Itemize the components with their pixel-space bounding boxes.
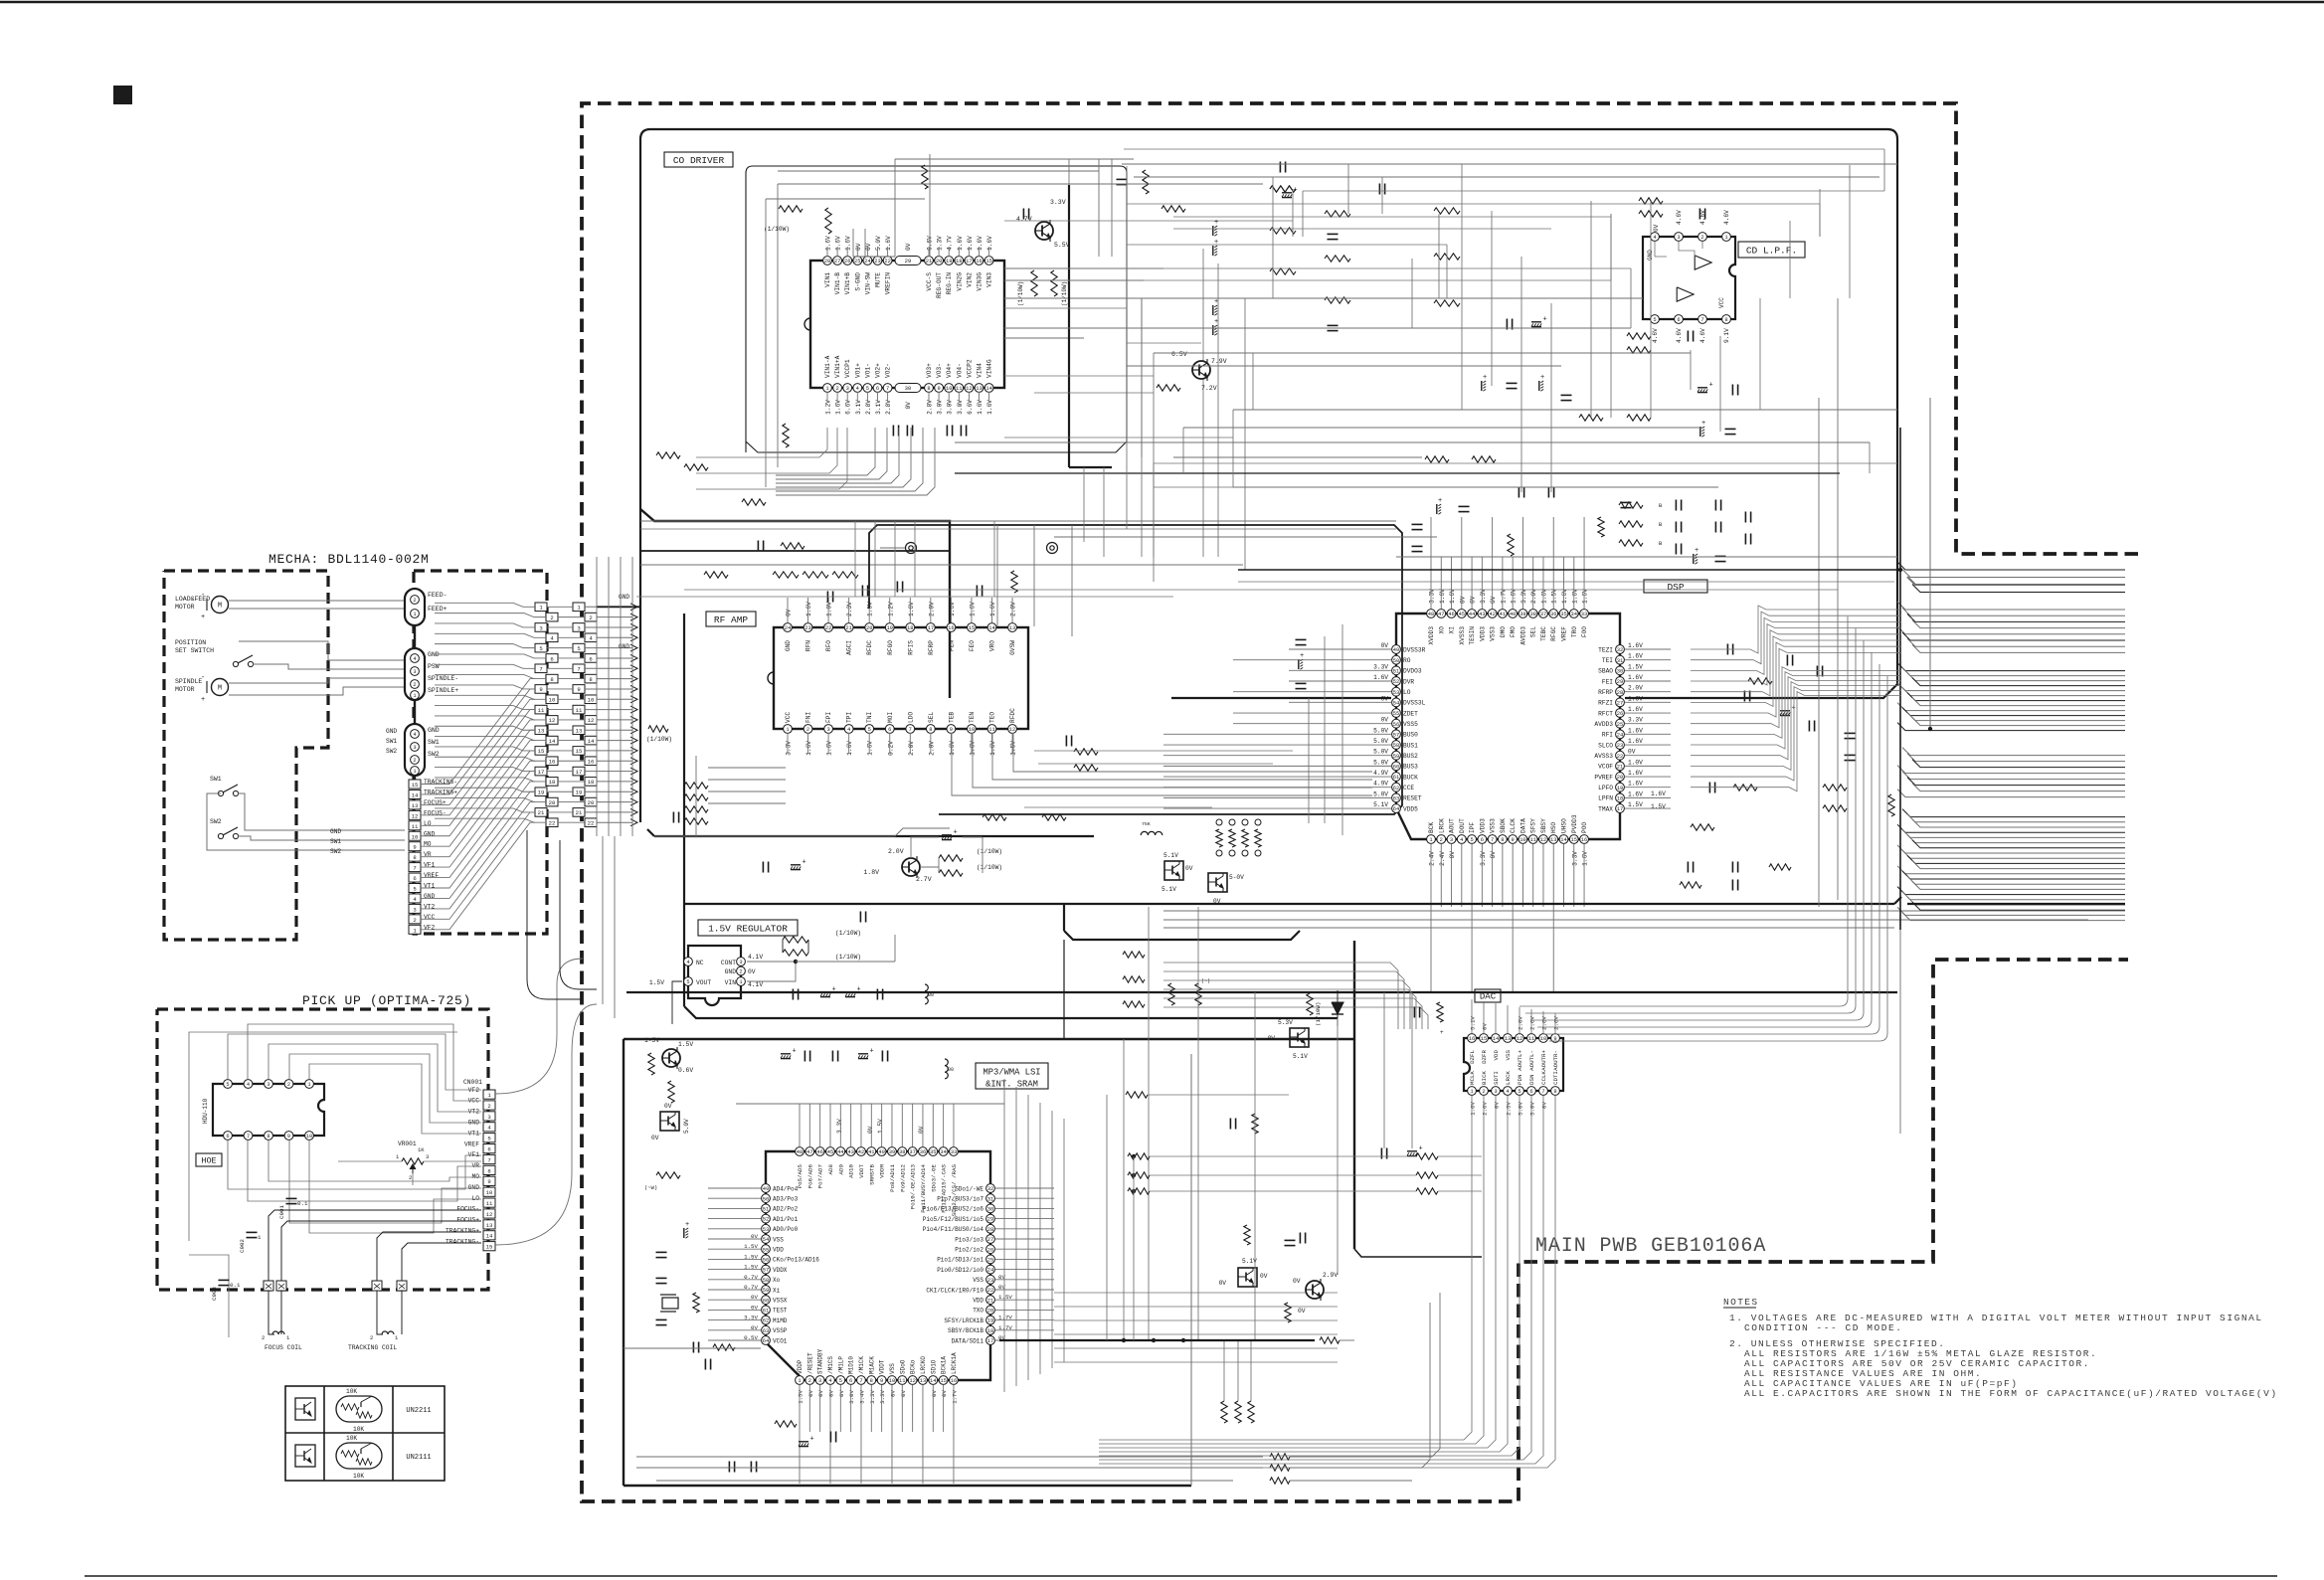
svg-text:1.6V: 1.6V bbox=[1439, 589, 1446, 604]
svg-text:21: 21 bbox=[538, 809, 545, 816]
svg-text:7: 7 bbox=[909, 727, 912, 733]
svg-text:35: 35 bbox=[930, 1149, 936, 1155]
capacitor bbox=[1845, 754, 1856, 756]
svg-text:RFGC: RFGC bbox=[1550, 626, 1557, 641]
resistor bbox=[1691, 824, 1714, 830]
UN table bbox=[285, 1386, 445, 1481]
svg-text:21: 21 bbox=[1617, 764, 1623, 770]
svg-text:2.0V: 2.0V bbox=[928, 741, 935, 756]
resistor bbox=[1627, 333, 1651, 339]
svg-text:64: 64 bbox=[763, 1338, 769, 1344]
capacitor bbox=[762, 862, 764, 873]
svg-text:10: 10 bbox=[588, 697, 595, 704]
svg-text:4: 4 bbox=[686, 960, 689, 966]
svg-text:AD4/Po4: AD4/Po4 bbox=[773, 1185, 799, 1192]
svg-text:LPFO: LPFO bbox=[1598, 785, 1613, 791]
svg-text:5: 5 bbox=[487, 1136, 490, 1142]
svg-text:47: 47 bbox=[806, 1149, 812, 1155]
svg-text:42: 42 bbox=[858, 1149, 864, 1155]
1.5V REGULATOR label bbox=[698, 920, 798, 936]
svg-text:MP3/WMA LSI: MP3/WMA LSI bbox=[983, 1068, 1040, 1078]
svg-text:5: 5 bbox=[868, 727, 871, 733]
svg-text:1K: 1K bbox=[418, 1146, 425, 1153]
resistor bbox=[356, 1459, 372, 1465]
svg-text:24: 24 bbox=[987, 1268, 993, 1274]
svg-text:1: 1 bbox=[258, 1234, 262, 1241]
transistor cell UN2211 bbox=[295, 1398, 315, 1420]
svg-text:3.3V: 3.3V bbox=[869, 1389, 876, 1403]
svg-text:10: 10 bbox=[412, 833, 419, 840]
resistor bbox=[648, 726, 668, 732]
svg-text:5.1V: 5.1V bbox=[1470, 1016, 1477, 1030]
capacitor bbox=[861, 586, 863, 597]
electrolytic capacitor bbox=[1693, 554, 1695, 564]
svg-text:VSS: VSS bbox=[973, 1277, 983, 1284]
resistor bbox=[832, 572, 858, 578]
svg-text:VSSX: VSSX bbox=[773, 1298, 788, 1305]
svg-text:29: 29 bbox=[905, 258, 912, 264]
resistor bbox=[1639, 211, 1663, 217]
svg-text:2.6V: 2.6V bbox=[1518, 1016, 1524, 1030]
svg-text:1.5V: 1.5V bbox=[649, 979, 664, 986]
resistor bbox=[1128, 1172, 1150, 1178]
svg-text:21: 21 bbox=[987, 1298, 993, 1304]
page top edge line bbox=[0, 1, 2324, 4]
svg-text:1.6V: 1.6V bbox=[1628, 790, 1643, 797]
svg-text:1.5V: 1.5V bbox=[1651, 803, 1666, 810]
digital transistor bbox=[1238, 1268, 1257, 1287]
resistor bbox=[1216, 829, 1222, 847]
svg-text:VIN: VIN bbox=[725, 979, 737, 986]
svg-text:2.0V: 2.0V bbox=[1628, 685, 1643, 692]
vertical wires upper mid bbox=[1126, 166, 1128, 452]
vertical drops from co bottom to rf top bbox=[854, 521, 856, 597]
capacitor bbox=[1380, 1148, 1382, 1159]
capacitor bbox=[219, 1279, 230, 1281]
svg-text:0V: 0V bbox=[889, 1389, 896, 1396]
svg-text:14: 14 bbox=[1560, 837, 1566, 843]
svg-text:VIN4G: VIN4G bbox=[986, 359, 993, 378]
svg-text:23: 23 bbox=[1617, 743, 1623, 749]
svg-text:1.8V: 1.8V bbox=[863, 869, 879, 876]
svg-text:MECHA: BDL1140-002M: MECHA: BDL1140-002M bbox=[268, 552, 430, 567]
svg-text:3: 3 bbox=[539, 624, 542, 631]
svg-text:BUS3: BUS3 bbox=[1403, 764, 1418, 771]
svg-text:3.3V: 3.3V bbox=[1571, 851, 1578, 866]
heavy jog wire y945 bbox=[1064, 931, 1300, 940]
svg-text:55: 55 bbox=[1393, 711, 1399, 717]
svg-text:2: 2 bbox=[487, 1103, 490, 1110]
resistor bbox=[1123, 952, 1145, 958]
svg-text:2: 2 bbox=[1440, 837, 1443, 843]
resistor bbox=[1074, 765, 1098, 771]
svg-text:8: 8 bbox=[589, 676, 592, 683]
svg-text:Pio4/F11/BUS0/io4: Pio4/F11/BUS0/io4 bbox=[923, 1226, 984, 1233]
svg-text:NOTES: NOTES bbox=[1723, 1297, 1759, 1308]
resistor bbox=[1325, 211, 1350, 217]
svg-text:+: + bbox=[1695, 547, 1698, 555]
digital transistor bbox=[1290, 1028, 1309, 1047]
svg-text:3: 3 bbox=[413, 669, 416, 675]
svg-text:VO1+: VO1+ bbox=[854, 363, 861, 378]
svg-text:7: 7 bbox=[487, 1156, 490, 1163]
svg-text:45: 45 bbox=[1459, 612, 1465, 617]
svg-text:1.6V: 1.6V bbox=[908, 602, 915, 616]
svg-text:FOO: FOO bbox=[1581, 626, 1588, 637]
svg-text:VDD3: VDD3 bbox=[1479, 626, 1486, 641]
svg-text:SDoO: SDoO bbox=[899, 1359, 906, 1374]
IC MP3 top pins 48-33 bbox=[796, 1147, 804, 1156]
svg-text:5.5V: 5.5V bbox=[1054, 242, 1070, 249]
resistor bbox=[1823, 785, 1847, 790]
svg-text:+: + bbox=[1214, 239, 1218, 247]
wires CO DRIVER bottom pins bbox=[826, 392, 828, 402]
svg-text:0V: 0V bbox=[865, 243, 872, 251]
svg-text:1.6V: 1.6V bbox=[1470, 1101, 1477, 1115]
resistor bbox=[356, 1412, 372, 1418]
svg-text:+: + bbox=[685, 1221, 689, 1229]
svg-text:8: 8 bbox=[413, 854, 416, 861]
electrolytic capacitor bbox=[1538, 381, 1540, 391]
svg-text:2: 2 bbox=[1700, 235, 1703, 241]
electrolytic capacitor bbox=[1436, 504, 1438, 514]
svg-text:20: 20 bbox=[987, 1309, 993, 1315]
svg-text:VIN3: VIN3 bbox=[986, 272, 993, 287]
vertical wires right of MP3 bbox=[1003, 1079, 1005, 1392]
svg-text:1.6V: 1.6V bbox=[949, 602, 956, 616]
resistor bbox=[1680, 882, 1701, 888]
svg-text:15: 15 bbox=[576, 748, 583, 755]
svg-text:+: + bbox=[1483, 374, 1487, 382]
heavy wire left low bbox=[624, 1347, 761, 1349]
svg-text:RFRP: RFRP bbox=[928, 640, 935, 655]
svg-text:57: 57 bbox=[1393, 732, 1399, 738]
svg-text:5: 5 bbox=[226, 1082, 229, 1088]
svg-text:0V: 0V bbox=[1653, 224, 1660, 232]
wires DAC top pins up bbox=[1471, 999, 1473, 1033]
svg-text:Po9/AD12: Po9/AD12 bbox=[899, 1163, 906, 1191]
svg-text:VSS3: VSS3 bbox=[1490, 626, 1497, 641]
electrolytic capacitor bbox=[791, 864, 801, 866]
electrolytic capacitor bbox=[1407, 1150, 1417, 1152]
resistor bbox=[684, 806, 708, 812]
svg-text:1: 1 bbox=[739, 979, 742, 985]
svg-text:0.6V: 0.6V bbox=[678, 1067, 693, 1074]
svg-text:29: 29 bbox=[987, 1217, 993, 1223]
svg-text:56: 56 bbox=[1393, 722, 1399, 728]
svg-text:GND: GND bbox=[725, 968, 737, 975]
svg-text:1.6V: 1.6V bbox=[1511, 589, 1518, 604]
left vertical wires low bbox=[1106, 1095, 1108, 1340]
svg-text:4: 4 bbox=[856, 386, 859, 392]
svg-text:9: 9 bbox=[880, 1378, 883, 1384]
wire sw fan bbox=[207, 793, 353, 850]
capacitor bbox=[1725, 428, 1736, 430]
svg-text:AVDD3: AVDD3 bbox=[1520, 626, 1526, 645]
svg-text:(1/10W): (1/10W) bbox=[1017, 281, 1024, 306]
svg-text:5.0V: 5.0V bbox=[1373, 738, 1388, 745]
svg-text:4.9V: 4.9V bbox=[1373, 770, 1388, 777]
resistor bbox=[1627, 415, 1651, 421]
svg-text:6: 6 bbox=[1677, 317, 1680, 323]
svg-text:6: 6 bbox=[589, 655, 592, 662]
svg-text:VCCP2: VCCP2 bbox=[966, 359, 973, 378]
svg-text:ALL E.CAPACITORS ARE SHOWN IN: ALL E.CAPACITORS ARE SHOWN IN THE FORM O… bbox=[1744, 1388, 2278, 1399]
svg-text:1.6V: 1.6V bbox=[1628, 770, 1643, 777]
svg-text:1.6V: 1.6V bbox=[805, 741, 812, 756]
svg-text:13: 13 bbox=[538, 728, 545, 735]
resistor bbox=[1325, 256, 1350, 262]
svg-text:VDDT: VDDT bbox=[879, 1359, 886, 1374]
capacitor bbox=[1506, 319, 1508, 330]
svg-text:2.0V: 2.0V bbox=[888, 848, 904, 855]
RF block outline bbox=[869, 525, 1402, 814]
svg-text:5.0V: 5.0V bbox=[683, 1119, 690, 1134]
svg-text:AD10: AD10 bbox=[848, 1163, 855, 1177]
svg-text:12: 12 bbox=[1517, 1036, 1522, 1042]
svg-text:12: 12 bbox=[588, 717, 595, 724]
svg-text:+: + bbox=[1419, 1145, 1423, 1153]
svg-text:VDD: VDD bbox=[773, 1247, 784, 1254]
svg-text:7: 7 bbox=[1541, 1089, 1544, 1095]
svg-text:6.6V: 6.6V bbox=[845, 400, 852, 415]
resistor bbox=[1320, 1337, 1340, 1343]
svg-text:2: 2 bbox=[287, 1082, 290, 1088]
resistor bbox=[939, 870, 963, 876]
svg-text:0.1: 0.1 bbox=[297, 1200, 308, 1207]
svg-text:TEZI: TEZI bbox=[1598, 646, 1613, 653]
svg-text:41: 41 bbox=[1500, 612, 1506, 617]
svg-text:5-0V: 5-0V bbox=[1229, 874, 1244, 881]
capacitor bbox=[750, 1462, 752, 1473]
svg-text:48: 48 bbox=[1428, 612, 1434, 617]
svg-text:28: 28 bbox=[987, 1227, 993, 1233]
svg-text:2.3V: 2.3V bbox=[846, 602, 853, 616]
svg-text:BUS1: BUS1 bbox=[1403, 742, 1418, 749]
svg-text:RFGO: RFGO bbox=[887, 640, 894, 655]
capacitor bbox=[1547, 487, 1549, 498]
electrolytic capacitor bbox=[820, 991, 830, 993]
electrolytic capacitor bbox=[781, 1053, 791, 1055]
tracking coil bbox=[377, 1322, 383, 1334]
svg-text:SDTI: SDTI bbox=[1493, 1071, 1500, 1085]
svg-text:AD1/Po1: AD1/Po1 bbox=[773, 1216, 799, 1223]
svg-text:9: 9 bbox=[577, 686, 580, 693]
svg-text:0V: 0V bbox=[807, 1389, 814, 1396]
svg-text:8: 8 bbox=[1501, 837, 1504, 843]
MP3/WMA LSI label bbox=[976, 1063, 1048, 1089]
svg-text:51: 51 bbox=[763, 1207, 769, 1213]
svg-text:C002: C002 bbox=[239, 1239, 246, 1253]
CD L.P.F. label bbox=[1738, 242, 1805, 258]
svg-text:25: 25 bbox=[987, 1258, 993, 1264]
svg-text:SBSY: SBSY bbox=[1540, 818, 1547, 833]
svg-text:1.6V: 1.6V bbox=[885, 236, 892, 251]
svg-text:6.5V: 6.5V bbox=[1171, 351, 1187, 358]
svg-text:0V: 0V bbox=[941, 1389, 948, 1396]
svg-text:VDD: VDD bbox=[973, 1298, 983, 1305]
svg-text:2.6V: 2.6V bbox=[1482, 1101, 1489, 1115]
svg-text:FOCUS-: FOCUS- bbox=[456, 1206, 479, 1213]
svg-text:NC: NC bbox=[696, 960, 704, 966]
transistor bbox=[902, 858, 920, 876]
svg-text:3.3V: 3.3V bbox=[786, 741, 793, 756]
svg-text:5.1V: 5.1V bbox=[1373, 801, 1388, 808]
IC CO DRIVER bottom pins 1-7,30,8-14 bbox=[823, 384, 832, 393]
connector SPINDLE oval bbox=[405, 648, 425, 700]
wire pickup bbox=[289, 1141, 481, 1223]
svg-text:SW2: SW2 bbox=[386, 748, 397, 755]
svg-text:3: 3 bbox=[487, 1114, 490, 1121]
svg-text:GND: GND bbox=[1647, 250, 1654, 261]
svg-text:SLCO: SLCO bbox=[1598, 742, 1613, 749]
svg-text:12: 12 bbox=[1540, 837, 1546, 843]
svg-text:37: 37 bbox=[909, 1149, 915, 1155]
svg-text:2: 2 bbox=[413, 682, 416, 688]
wire block inner top bbox=[647, 829, 1094, 836]
svg-text:VIN1+B: VIN1+B bbox=[844, 272, 851, 295]
svg-text:(1/10W): (1/10W) bbox=[764, 226, 790, 233]
electrolytic capacitor bbox=[1698, 387, 1707, 389]
svg-text:RFO: RFO bbox=[825, 640, 832, 651]
svg-text:33: 33 bbox=[1581, 612, 1587, 617]
svg-text:10: 10 bbox=[549, 697, 556, 704]
thick vert codrvr right bbox=[1068, 185, 1070, 467]
svg-text:64: 64 bbox=[1393, 806, 1399, 812]
MECHA dashed border left bbox=[164, 571, 328, 940]
svg-text:6: 6 bbox=[487, 1146, 490, 1153]
svg-text:7.2V: 7.2V bbox=[1201, 385, 1217, 392]
svg-text:7: 7 bbox=[539, 666, 542, 673]
svg-text:2.4V: 2.4V bbox=[1439, 851, 1446, 866]
svg-text:SW1: SW1 bbox=[210, 776, 222, 783]
digital transistor bbox=[660, 1112, 679, 1131]
svg-text:LOAD&FEED: LOAD&FEED bbox=[175, 596, 210, 603]
coil bbox=[382, 1331, 394, 1334]
svg-text:LO: LO bbox=[471, 1195, 479, 1202]
svg-text:38: 38 bbox=[1529, 612, 1535, 617]
resistor bbox=[781, 543, 804, 549]
svg-text:0V: 0V bbox=[1298, 1308, 1306, 1315]
svg-text:1.6V: 1.6V bbox=[1628, 653, 1643, 660]
svg-text:20: 20 bbox=[1617, 775, 1623, 781]
svg-text:+: + bbox=[1214, 219, 1218, 227]
svg-text:C003: C003 bbox=[211, 1287, 218, 1301]
wire bottom fan codrvr bbox=[776, 428, 875, 475]
svg-text:+: + bbox=[1543, 316, 1547, 324]
right wire bundle to next sheet bbox=[1897, 562, 2125, 570]
svg-text:AD3/Po3: AD3/Po3 bbox=[773, 1196, 799, 1203]
svg-text:1.6V: 1.6V bbox=[986, 236, 993, 251]
svg-text:HDU-110: HDU-110 bbox=[202, 1098, 209, 1124]
resistor bbox=[1011, 571, 1017, 593]
svg-text:75K: 75K bbox=[1142, 821, 1151, 827]
capacitor bbox=[656, 1251, 667, 1253]
svg-text:4: 4 bbox=[847, 727, 850, 733]
svg-text:18: 18 bbox=[956, 259, 962, 264]
IC DAC body bbox=[1464, 1038, 1563, 1091]
resistor bbox=[1074, 749, 1098, 755]
svg-text:+: + bbox=[793, 1048, 797, 1056]
svg-text:19: 19 bbox=[946, 259, 952, 264]
svg-text:46: 46 bbox=[1448, 612, 1454, 617]
capacitor bbox=[1675, 522, 1677, 533]
svg-text:TEN: TEN bbox=[969, 712, 976, 723]
svg-text:52: 52 bbox=[763, 1217, 769, 1223]
svg-text:1.6V: 1.6V bbox=[835, 236, 842, 251]
svg-text:VIN2G: VIN2G bbox=[956, 272, 963, 291]
wires vr bbox=[338, 1160, 402, 1162]
svg-text:4.6V: 4.6V bbox=[1676, 210, 1683, 225]
svg-text:0V: 0V bbox=[905, 402, 912, 410]
svg-text:47: 47 bbox=[1438, 612, 1444, 617]
svg-text:7: 7 bbox=[413, 865, 416, 872]
inductor bbox=[945, 1059, 948, 1079]
svg-text:VO3-: VO3- bbox=[936, 363, 943, 378]
svg-text:RESET: RESET bbox=[1403, 795, 1422, 802]
svg-text:2.0V: 2.0V bbox=[1530, 589, 1537, 604]
svg-text:0V: 0V bbox=[748, 968, 756, 975]
svg-text:MAIN PWB GEB10106A: MAIN PWB GEB10106A bbox=[1535, 1235, 1766, 1258]
svg-text:2.8V: 2.8V bbox=[885, 400, 892, 415]
RF AMP label bbox=[706, 612, 756, 626]
svg-text:1.6V: 1.6V bbox=[1628, 738, 1643, 745]
svg-text:1.0V: 1.0V bbox=[826, 602, 833, 616]
svg-text:39: 39 bbox=[889, 1149, 895, 1155]
svg-text:DZFR: DZFR bbox=[1481, 1049, 1488, 1063]
svg-text:20: 20 bbox=[549, 799, 556, 806]
svg-text:25: 25 bbox=[1617, 722, 1623, 728]
op-amp bbox=[1677, 287, 1694, 301]
resistor bbox=[783, 424, 789, 447]
svg-text:44: 44 bbox=[1469, 612, 1475, 617]
svg-text:+: + bbox=[954, 829, 958, 837]
svg-text:1.6V: 1.6V bbox=[1628, 695, 1643, 702]
capacitor bbox=[1714, 500, 1716, 511]
resistor bbox=[684, 464, 708, 470]
capacitor bbox=[960, 426, 962, 437]
svg-text:1.3V: 1.3V bbox=[937, 236, 944, 251]
svg-text:VDDT: VDDT bbox=[858, 1163, 865, 1177]
svg-text:RFIS: RFIS bbox=[907, 640, 914, 655]
svg-text:3.1V: 3.1V bbox=[875, 400, 882, 415]
svg-text:ZDET: ZDET bbox=[1403, 710, 1418, 717]
capacitor bbox=[1229, 1119, 1231, 1130]
svg-text:13: 13 bbox=[412, 802, 419, 809]
svg-text:1.6V: 1.6V bbox=[845, 236, 852, 251]
capacitor bbox=[1786, 655, 1788, 666]
svg-text:VSS3: VSS3 bbox=[1490, 818, 1497, 833]
elbow wires from CO DRIVER to right bbox=[1004, 267, 1163, 269]
resistor bbox=[684, 783, 708, 789]
svg-text:3.1V: 3.1V bbox=[855, 400, 862, 415]
svg-text:29: 29 bbox=[1617, 679, 1623, 685]
svg-text:VO2+: VO2+ bbox=[875, 363, 882, 378]
svg-text:27: 27 bbox=[1617, 700, 1623, 706]
svg-text:1.2V: 1.2V bbox=[887, 602, 894, 616]
svg-text:12: 12 bbox=[486, 1211, 493, 1218]
svg-text:FOCUS+: FOCUS+ bbox=[456, 1217, 479, 1224]
svg-text:PVREF: PVREF bbox=[1594, 774, 1613, 781]
electrolytic capacitor bbox=[1531, 321, 1541, 323]
zener diode bbox=[1332, 1002, 1343, 1014]
svg-text:1.7V: 1.7V bbox=[1500, 589, 1507, 604]
wires left bus into DAC bbox=[1163, 963, 1398, 1029]
svg-text:REG-IN: REG-IN bbox=[946, 272, 953, 295]
svg-text:FEI: FEI bbox=[1602, 678, 1613, 685]
svg-text:14: 14 bbox=[588, 738, 595, 745]
capacitor bbox=[1518, 487, 1520, 498]
